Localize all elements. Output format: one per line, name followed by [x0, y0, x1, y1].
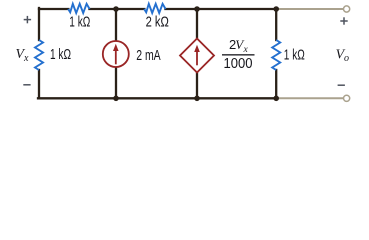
svg-text:x: x	[23, 53, 29, 64]
svg-text:1 kΩ: 1 kΩ	[69, 15, 90, 31]
svg-text:2 mA: 2 mA	[136, 48, 161, 64]
svg-text:1000: 1000	[224, 56, 253, 72]
svg-text:1 kΩ: 1 kΩ	[284, 48, 305, 64]
svg-text:1 kΩ: 1 kΩ	[50, 47, 71, 63]
svg-text:2 kΩ: 2 kΩ	[146, 15, 170, 31]
svg-text:o: o	[344, 53, 349, 64]
svg-text:x: x	[243, 45, 249, 55]
